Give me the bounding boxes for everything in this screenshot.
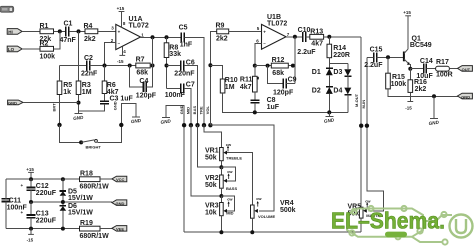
svg-text:220uF: 220uF [36, 190, 57, 197]
svg-text:D4: D4 [333, 87, 342, 94]
svg-text:MID: MID [186, 107, 191, 114]
svg-text:500k: 500k [280, 207, 296, 214]
svg-text:cw: cw [256, 196, 262, 201]
connector GND psu [112, 200, 127, 206]
node gnd wire to connector [432, 94, 436, 98]
svg-text:VR2: VR2 [205, 175, 219, 182]
node on switch gnd line [119, 123, 123, 127]
node R7 right / C4 right [151, 64, 155, 68]
wire LO to R2 [22, 48, 40, 50]
svg-text:OUT: OUT [462, 67, 471, 72]
svg-text:R5: R5 [63, 82, 72, 89]
svg-text:2.2uF: 2.2uF [297, 49, 316, 56]
node VR3 on rail [219, 230, 223, 234]
svg-text:120pF: 120pF [273, 89, 294, 96]
capacitor C1 47nF [60, 21, 77, 44]
wire C5 to TRE bus [184, 37, 204, 125]
capacitor C3 1uF [79, 96, 134, 112]
node D6 bottom [61, 227, 65, 231]
resistor R3 1M (vertical from node) [76, 31, 91, 113]
capacitor C2 22nF [81, 55, 98, 78]
svg-text:TREBLE: TREBLE [226, 155, 242, 160]
ground symbol under R3 [73, 114, 84, 122]
capacitor C13 220uF [21, 202, 57, 229]
svg-text:680R/1W: 680R/1W [80, 184, 110, 191]
svg-text:cw: cw [365, 198, 371, 203]
-15 supply at U1A pin4 [117, 46, 125, 64]
wire M-IN to C15 [367, 56, 374, 58]
svg-text:C5: C5 [179, 25, 188, 32]
svg-text:100k: 100k [40, 53, 56, 60]
wire U1B pin6 feedback [255, 44, 262, 66]
svg-text:VOL: VOL [205, 106, 210, 115]
svg-text:TRE: TRE [199, 106, 204, 114]
resistor R6 4k7 [102, 66, 118, 102]
psu top rail +15 [6, 178, 80, 180]
node M-IN [365, 124, 369, 128]
svg-text:GND: GND [112, 101, 117, 110]
svg-text:+: + [263, 30, 266, 35]
svg-text:10k: 10k [205, 210, 217, 217]
resistor R17 100R [436, 59, 458, 78]
ground symbol right [428, 96, 439, 126]
resistor R13 4k7 [310, 29, 361, 48]
connector GND (source) [8, 100, 23, 106]
svg-text:D1: D1 [312, 69, 321, 76]
svg-text:2k2: 2k2 [415, 86, 427, 93]
site logo badge [0, 6, 14, 12]
svg-text:M-OUT: M-OUT [354, 93, 359, 107]
wire C7 to MID bus [184, 89, 191, 126]
resistor R10 1M [210, 65, 347, 112]
svg-text:VEE: VEE [116, 227, 124, 232]
connector GND right [458, 93, 473, 99]
wire junction to VR3 wiper loop [221, 196, 234, 211]
svg-text:+15: +15 [26, 167, 34, 172]
svg-text:50k: 50k [205, 182, 217, 189]
svg-text:100nF: 100nF [165, 92, 186, 99]
node tre bus [202, 123, 206, 127]
svg-text:+: + [21, 210, 24, 215]
capacitor C10 2.2uF [297, 27, 316, 56]
node on R5 line [57, 123, 61, 127]
svg-text:120pF: 120pF [136, 93, 157, 100]
svg-text:VCC: VCC [116, 177, 125, 182]
node inverting input junction [103, 64, 107, 68]
op-amp U1A [111, 16, 149, 54]
node bas bus [195, 123, 199, 127]
node C12 top [29, 177, 33, 181]
node diode gnd rail [327, 110, 331, 114]
wire junction to VR2 wiper loop [221, 167, 235, 181]
svg-text:BASS: BASS [226, 186, 237, 191]
svg-text:+15: +15 [117, 6, 125, 11]
resistor R16 2k2 [408, 69, 427, 102]
potentiometer VR3 10k MID [205, 196, 234, 232]
resistor R1 22k [40, 23, 54, 43]
svg-text:-15: -15 [117, 59, 124, 64]
psu mid rail gnd [31, 201, 112, 203]
bottom ground rail [184, 231, 361, 233]
+15 supply at U1A pin8 [117, 6, 125, 27]
node R13 out / R14 top [327, 35, 331, 39]
wire C6 to BAS bus [184, 66, 198, 126]
wire C15 to Q1 base [377, 56, 404, 58]
svg-text:C7: C7 [186, 82, 195, 89]
watermark traces [347, 206, 452, 245]
svg-text:4k7: 4k7 [240, 84, 252, 91]
svg-text:4k7: 4k7 [311, 40, 323, 47]
diode D4 [333, 87, 351, 112]
psu left vertical with C11 [5, 179, 7, 228]
connector VEE [112, 226, 127, 232]
resistor R9 2k2 [216, 23, 229, 43]
wire VR1 wiper to VR4 top [227, 153, 252, 205]
wire emitter to C14 [410, 68, 423, 70]
resistor R14 220R [327, 37, 350, 68]
diode D2 [312, 87, 333, 113]
svg-text:1uF: 1uF [267, 104, 280, 111]
wire U1B output [286, 36, 302, 38]
svg-text:1nF: 1nF [180, 41, 193, 48]
op-amp U1B [256, 14, 289, 49]
svg-text:220uF: 220uF [36, 217, 57, 224]
resistor R12 68k [271, 57, 295, 77]
potentiometer VR1 50k TREBLE [205, 142, 242, 162]
capacitor C11 100nF [2, 196, 28, 212]
capacitor C15 2.2uF [364, 46, 383, 69]
svg-text:2.2uF: 2.2uF [364, 62, 383, 69]
wire output down to feedback [294, 37, 296, 84]
svg-text:47nF: 47nF [60, 37, 77, 44]
svg-text:VR3: VR3 [205, 203, 219, 210]
svg-text:VOLUME: VOLUME [258, 214, 275, 219]
connector OUT [458, 66, 473, 72]
svg-text:HI: HI [8, 30, 13, 35]
-15 supply at R16 [405, 102, 413, 111]
connector LO [7, 46, 22, 52]
capacitor C8 1uF [250, 97, 279, 112]
node VR2 bottom / VR3 top [219, 194, 223, 198]
svg-text:R3: R3 [82, 82, 91, 89]
svg-text:R11: R11 [240, 77, 253, 84]
capacitor C6 220nF [167, 59, 196, 77]
svg-text:220R: 220R [333, 52, 350, 59]
capacitor C14 10uF [416, 58, 433, 80]
node output to R8 [165, 35, 169, 39]
svg-text:VR1: VR1 [205, 148, 219, 155]
diode D5 15V/1W zener [60, 179, 94, 206]
svg-text:R14: R14 [333, 45, 346, 52]
-15 supply arrow psu [27, 229, 34, 243]
potentiometer VR4 500k VOLUME [251, 196, 296, 232]
capacitor C9 120pF [268, 66, 297, 97]
node C4 left [128, 64, 132, 68]
svg-text:D3: D3 [333, 69, 342, 76]
ground symbol diode rail [324, 112, 335, 123]
potentiometer VR5 50k MASTER [348, 198, 384, 232]
ground symbol bright net [131, 117, 142, 124]
node R12 right [291, 64, 295, 68]
M-OUT bus wire [360, 37, 362, 207]
+15 supply at Q1 [403, 10, 411, 16]
node R3 bottom / gnd wire [77, 101, 81, 105]
wire vol bus up to R9 [210, 31, 216, 125]
svg-text:TL072: TL072 [129, 23, 149, 30]
bright switch open contact [95, 140, 98, 143]
capacitor C12 220uF [21, 179, 57, 202]
svg-text:TL072: TL072 [267, 20, 287, 27]
node U1B output [293, 35, 297, 39]
ground symbol gnd bus [160, 118, 171, 125]
resistor R2 100k [40, 41, 56, 61]
svg-text:M-IN: M-IN [361, 100, 366, 109]
node D5 D6 junction [61, 200, 65, 204]
svg-text:R7: R7 [136, 56, 145, 63]
svg-text:2k2: 2k2 [216, 35, 228, 42]
wire U1A pin2 feedback [105, 43, 116, 66]
wire GND connector to R3 node [23, 102, 79, 104]
wire C14 to R17 [426, 68, 435, 70]
resistor R15 100k [386, 57, 458, 96]
svg-text:MID: MID [226, 210, 233, 215]
resistor R18 680R/1W [80, 170, 113, 190]
svg-text:cw: cw [227, 169, 233, 174]
node feedback R11 junction [253, 64, 257, 68]
wire switch to gnd net [97, 104, 136, 143]
resistor R19 680R/1W [80, 220, 113, 240]
svg-text:-15: -15 [27, 237, 34, 242]
resistor R5 1k [57, 66, 72, 143]
svg-text:+15: +15 [403, 10, 411, 15]
svg-text:2k2: 2k2 [84, 36, 96, 43]
svg-text:GND: GND [8, 101, 17, 106]
wire vol bus to VR4 wiper loop [210, 125, 274, 211]
potentiometer VR2 50k BASS [205, 167, 237, 196]
wire HI to R1 [22, 30, 40, 32]
svg-text:BC549: BC549 [410, 42, 432, 49]
wire C1 to node 2 [69, 30, 85, 32]
capacitor C4 120pF [130, 37, 157, 99]
svg-text:R17: R17 [436, 59, 449, 66]
svg-text:220nF: 220nF [174, 70, 195, 77]
node D5 top [61, 177, 65, 181]
svg-text:C9: C9 [288, 77, 297, 84]
wire C2 to inverting node [90, 65, 136, 67]
svg-text:+: + [118, 29, 121, 34]
svg-text:15V/1W: 15V/1W [68, 195, 93, 202]
resistor R8 33k [164, 37, 181, 88]
svg-text:-15: -15 [405, 105, 412, 110]
node R8 bottom [165, 64, 169, 68]
wire R4 to U1A pin3 [98, 30, 116, 32]
resistor R7 68k feedback [136, 56, 153, 76]
svg-text:cw: cw [227, 196, 233, 201]
diode D6 15V/1W zener [60, 203, 94, 229]
wire bas bus to VR1 bottom [198, 125, 222, 167]
diode D3 [333, 69, 351, 88]
svg-text:22nF: 22nF [81, 70, 98, 77]
node C8 on gnd rail [253, 110, 257, 114]
bright switch contact [79, 140, 83, 144]
gnd bus wire with ground drop [166, 106, 184, 233]
wire C10 to R13 [306, 36, 310, 38]
svg-text:15V/1W: 15V/1W [68, 210, 93, 217]
wire R1 to node [54, 30, 66, 32]
svg-text:C2: C2 [84, 55, 93, 62]
node after R1 [58, 29, 62, 33]
wire mid bus to VR3 top [191, 125, 222, 196]
svg-text:BRT: BRT [52, 103, 57, 112]
node vol bus [208, 123, 212, 127]
connector VCC [112, 176, 127, 182]
node after C1 [77, 29, 81, 33]
svg-text:1M: 1M [82, 89, 92, 96]
psu bottom rail -15 [6, 228, 80, 230]
svg-text:680R/1W: 680R/1W [80, 233, 110, 240]
watermark ring with U [450, 215, 473, 238]
bright switch net wire [60, 125, 82, 142]
node VR4 on rail [250, 230, 254, 234]
svg-text:+: + [21, 183, 24, 188]
node Q1 emitter [408, 67, 412, 71]
svg-text:VR4: VR4 [280, 200, 294, 207]
svg-text:100R: 100R [436, 71, 453, 78]
node C13 bottom [29, 227, 33, 231]
svg-text:LO: LO [8, 47, 15, 52]
+15 supply arrow psu [26, 167, 34, 179]
svg-text:1k: 1k [63, 89, 71, 96]
wire R2 up to node [54, 31, 60, 49]
svg-text:C10: C10 [298, 27, 311, 34]
wire diode top row [329, 63, 348, 65]
svg-text:GND: GND [179, 105, 184, 114]
svg-text:1M: 1M [225, 84, 235, 91]
resistor R4 2k2 [84, 23, 98, 43]
svg-text:C1: C1 [64, 21, 73, 28]
node gnd bus [182, 123, 186, 127]
node base / R15 [386, 55, 390, 59]
capacitor C7 100nF [165, 82, 195, 99]
wire U1A output [141, 36, 182, 38]
wire R9 to U1B pin5 [229, 30, 262, 32]
svg-text:D2: D2 [312, 87, 321, 94]
wire feedback row [255, 65, 271, 67]
node C12 bottom [29, 200, 33, 204]
svg-text:68k: 68k [136, 70, 148, 77]
svg-text:EL–Shema.: EL–Shema. [331, 208, 445, 234]
wire VR1 bottom to junction [220, 161, 222, 168]
wire tre bus to VR1 top [204, 125, 221, 147]
svg-text:33k: 33k [169, 51, 181, 58]
M-IN bus wire [367, 57, 384, 211]
connector HI [7, 29, 22, 35]
node M-OUT [359, 124, 363, 128]
diode D1 [312, 68, 333, 87]
bright switch lever [81, 140, 94, 143]
node output to feedback [151, 35, 155, 39]
wire right diode chain top [347, 64, 349, 70]
svg-text:68k: 68k [272, 70, 284, 77]
node R10 tap on vol line [208, 63, 212, 67]
node VR1 bottom / VR2 top [219, 165, 223, 169]
svg-text:GND: GND [116, 201, 125, 206]
svg-text:100k: 100k [391, 81, 407, 88]
capacitor C5 1nF [179, 25, 193, 49]
node C9 left [266, 64, 270, 68]
svg-text:cw: cw [226, 142, 232, 147]
svg-text:100nF: 100nF [7, 205, 28, 212]
svg-text:C8: C8 [267, 97, 276, 104]
svg-text:BRIGHT: BRIGHT [86, 144, 102, 149]
svg-text:BAS: BAS [192, 106, 197, 115]
watermark bar [385, 232, 407, 238]
svg-text:50k: 50k [205, 155, 217, 162]
wire node row y65.5 with C2 [60, 65, 87, 67]
node mid bus [189, 123, 193, 127]
transistor Q1 BC549 [404, 16, 432, 69]
resistor R11 4k7 [240, 66, 259, 101]
svg-text:C11: C11 [9, 198, 22, 205]
svg-text:GND: GND [461, 94, 470, 99]
